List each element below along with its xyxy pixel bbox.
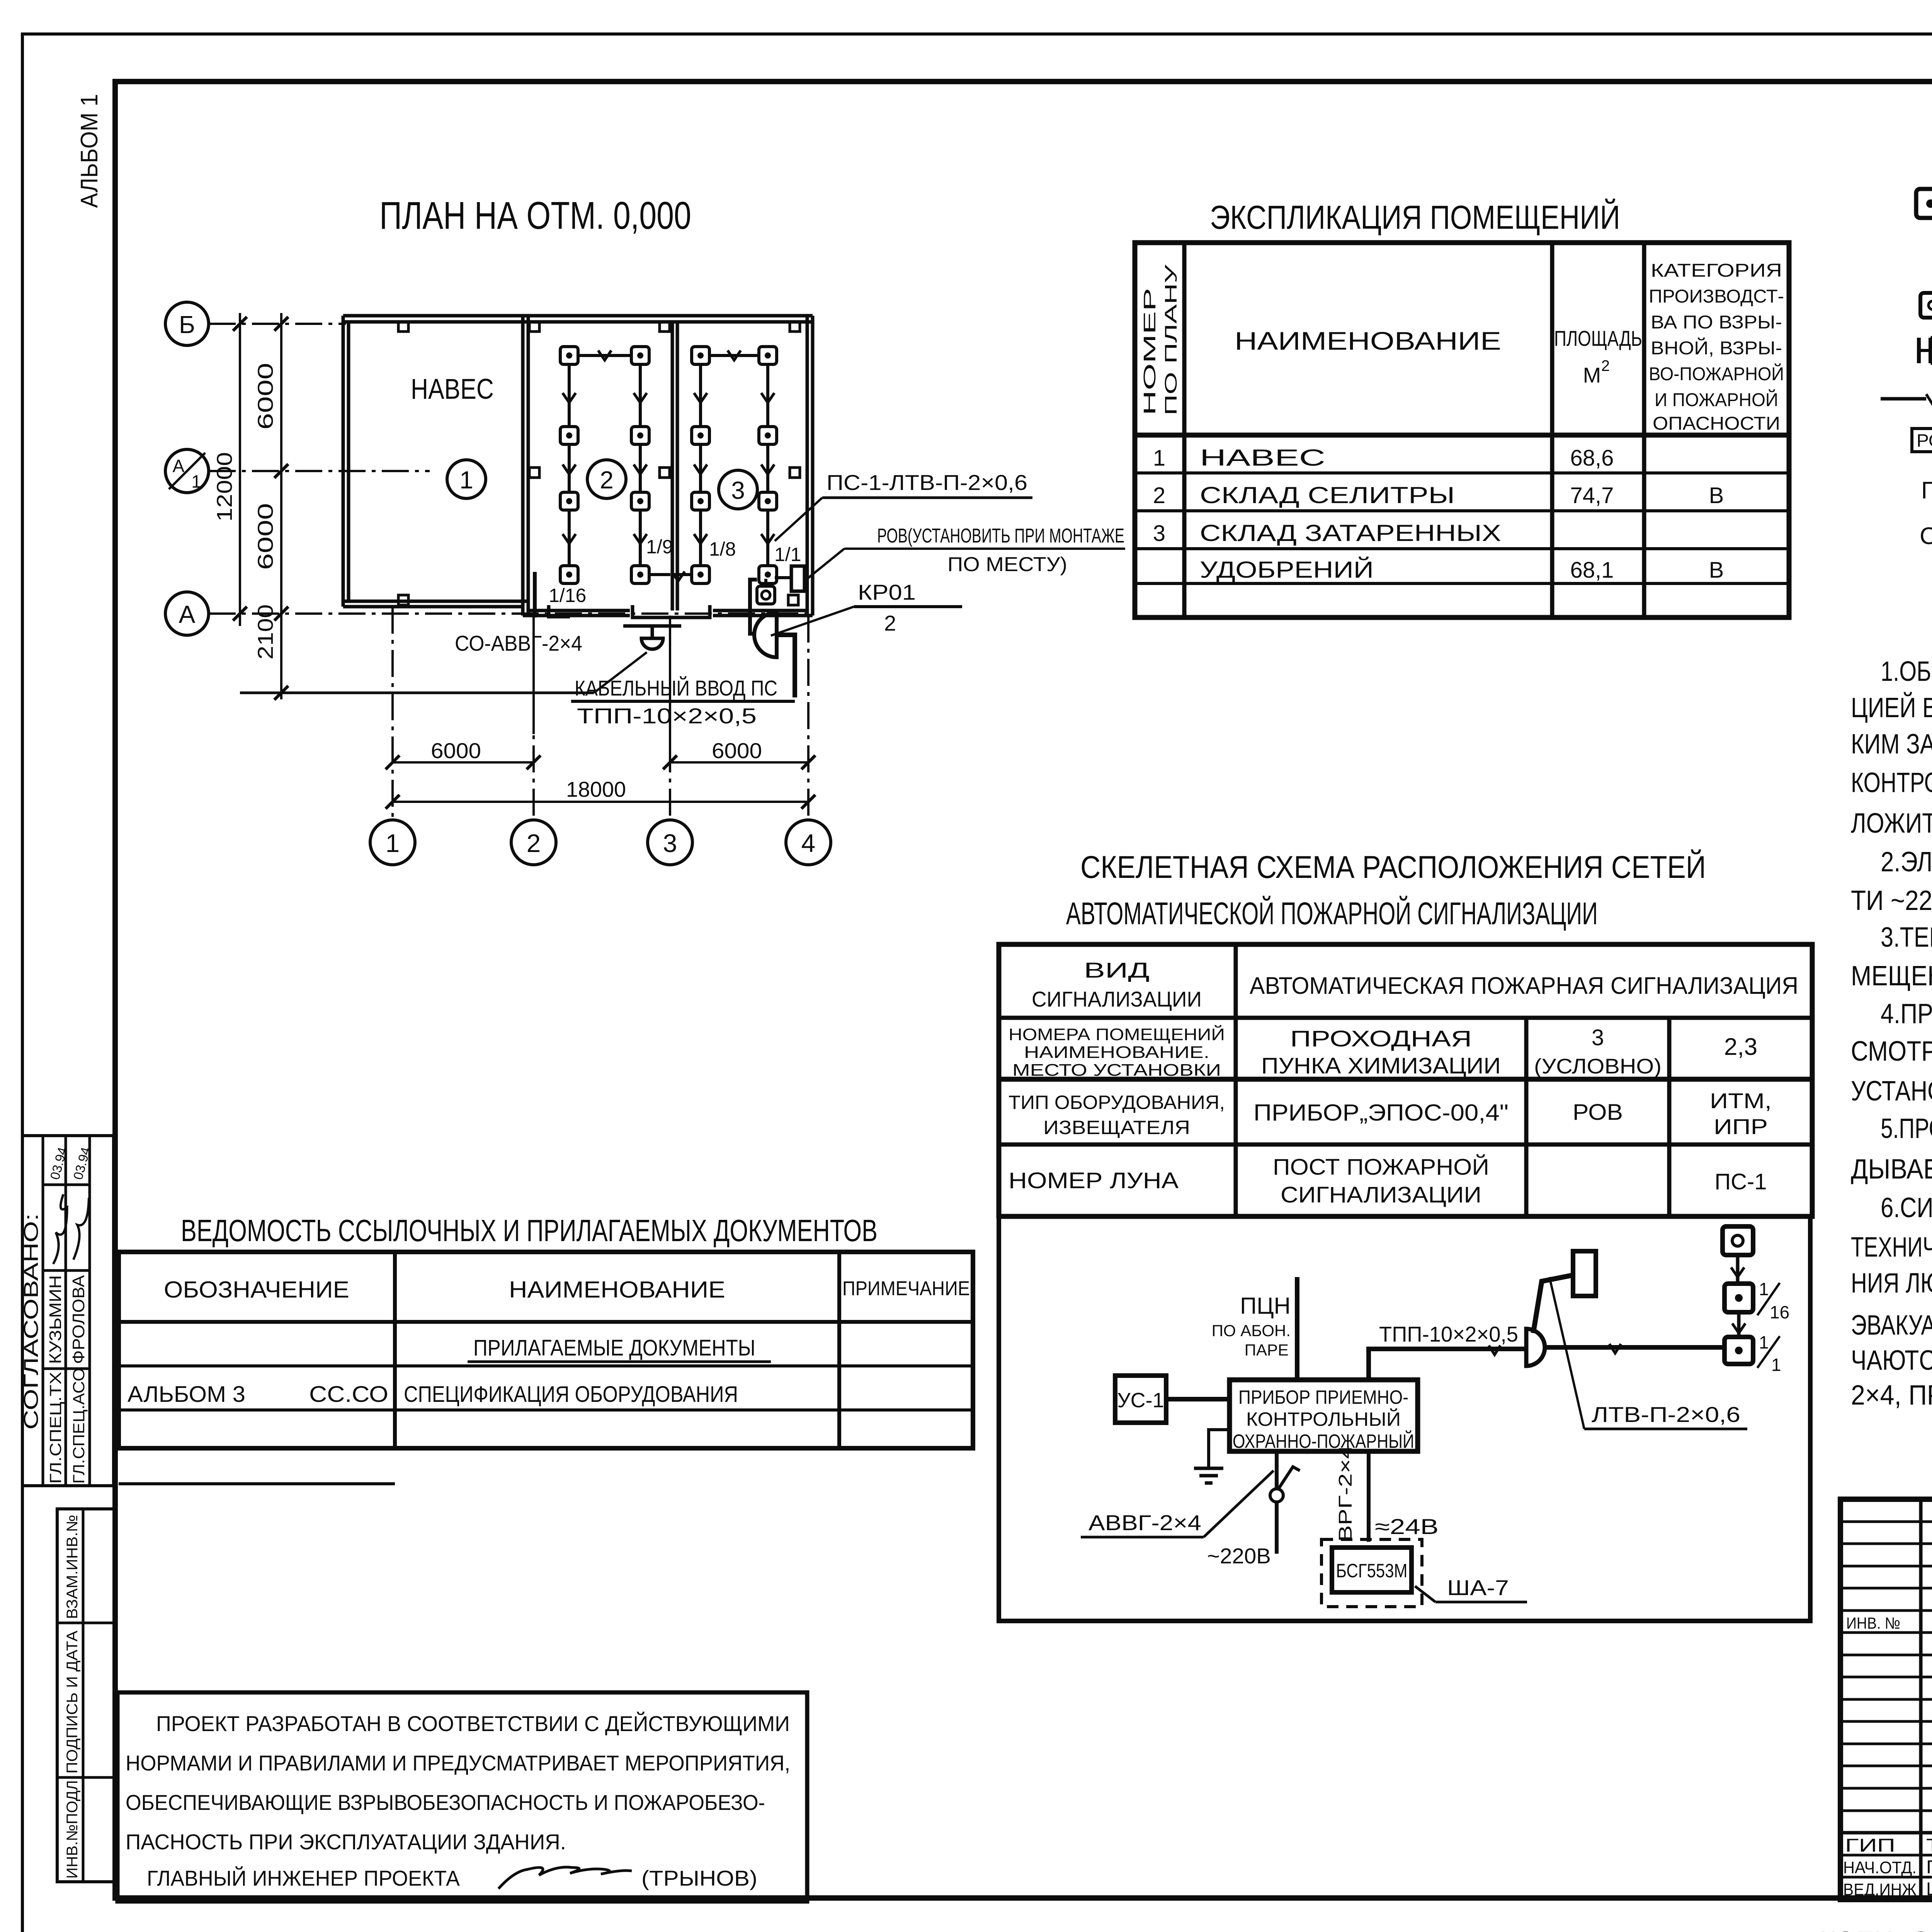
svg-text:ВЕДОМОСТЬ ССЫЛОЧНЫХ И ПРИЛАГАЕ: ВЕДОМОСТЬ ССЫЛОЧНЫХ И ПРИЛАГАЕМЫХ ДОКУМЕ… [181,1213,878,1248]
legend icon: automatic fire detector 1/1 [1916,180,1932,223]
dimension 18000 axes 1-4 [386,777,815,809]
svg-text:ЛТВ-П-2×0,6: ЛТВ-П-2×0,6 [1592,1402,1740,1427]
svg-text:СО-АВВГ-2×4: СО-АВВГ-2×4 [455,631,582,655]
label Кабельный ввод ПС / ТПП-10×2×0,5 [571,676,795,728]
svg-text:НОМЕР ЛУНА: НОМЕР ЛУНА [1009,1168,1179,1193]
door threshold room 1 [549,605,570,617]
svg-text:ПО ПЛАНУ: ПО ПЛАНУ [1162,264,1180,415]
stamp label ПОДПИСЬ И ДАТА [64,1631,81,1774]
svg-text:2100: 2100 [253,604,277,660]
bell box on schematic [1573,1251,1596,1296]
header ПЛОЩАДЬ м2 [1554,326,1642,387]
svg-text:12000: 12000 [212,452,236,522]
header НАИМЕНОВАНИЕ [1235,327,1501,355]
header Наименование [509,1277,725,1303]
skeleton scheme title [1066,849,1706,931]
stamp label ВЗАМ.ИНВ.№ [64,1515,81,1619]
svg-text:ПОТАПОВ: ПОТАПОВ [1926,1857,1932,1878]
svg-text:ПРИЛАГАЕМЫЕ ДОКУМЕНТЫ: ПРИЛАГАЕМЫЕ ДОКУМЕНТЫ [473,1335,755,1361]
svg-text:68,1: 68,1 [1570,558,1614,583]
svg-text:ША-7: ША-7 [1447,1575,1509,1600]
documents list table grid [119,1252,973,1484]
svg-text:ДЫВАЕМЫМ ПО СТЕНЕ И ПОТОЛКУ ОТ: ДЫВАЕМЫМ ПО СТЕНЕ И ПОТОЛКУ ОТКРЫТО. [1851,1154,1932,1185]
svg-text:ЛОЖИТЬ В ПРОХОДНОЙ ПУНКТА ХИМИ: ЛОЖИТЬ В ПРОХОДНОЙ ПУНКТА ХИМИЗАЦИИ. [1851,807,1932,839]
svg-text:НАВЕС: НАВЕС [411,373,494,405]
svg-text:2: 2 [1601,357,1610,374]
bottom margin text Копировал [1820,1927,1932,1932]
svg-text:А: А [179,600,196,628]
explication table title [1210,199,1620,236]
axis extension verticals 1-4 [393,607,808,819]
svg-text:АЛЬБОМ 1: АЛЬБОМ 1 [76,94,103,208]
detector 1/16 on schematic [1725,1279,1789,1322]
wire ВРГ-2×4 to battery [1335,1445,1369,1542]
svg-text:6.СИСТЕМА ОПОВЕЩЕНИЯ О ПОЖАРЕ-: 6.СИСТЕМА ОПОВЕЩЕНИЯ О ПОЖАРЕ-СОСТАВНАЯ … [1881,1192,1932,1223]
node ПЦН (city line) [1212,1277,1297,1380]
svg-text:А: А [173,456,185,476]
svg-text:РОВ: РОВ [1917,430,1932,451]
svg-text:НОМЕРА ПОМЕЩЕНИЙ: НОМЕРА ПОМЕЩЕНИЙ [1009,1024,1225,1044]
beam number label 1/1 [774,544,801,565]
plan title: План на отм. 0,000 [379,194,691,237]
bracket wire to bell КР01 [750,580,757,634]
label ТПП-10×2×0,5 [1379,1322,1518,1346]
svg-text:АВТОМАТИЧЕСКАЯ ПОЖАРНАЯ СИГНАЛ: АВТОМАТИЧЕСКАЯ ПОЖАРНАЯ СИГНАЛИЗАЦИЯ [1250,973,1798,999]
svg-text:ВРГ-2×4: ВРГ-2×4 [1335,1445,1356,1542]
approval stamp box (СОГЛАСОВАНО) [22,1136,114,1486]
room label Навес [411,373,494,405]
svg-text:ПС-1: ПС-1 [1714,1169,1767,1194]
svg-text:В: В [1709,558,1724,583]
svg-text:3.ТЕПЛОВЫЕ ПОЖАРНЫЕ ИЗВЕЩАТЕЛИ: 3.ТЕПЛОВЫЕ ПОЖАРНЫЕ ИЗВЕЩАТЕЛИ ИТМ УСТАН… [1881,922,1932,953]
vertical dimension line 6000/6000/2100 [253,313,288,700]
svg-text:4.ПРИ СРАБАТЫВАНИИ ЛЮБОГО ИЗВЕ: 4.ПРИ СРАБАТЫВАНИИ ЛЮБОГО ИЗВЕЩАТЕЛЯ ПРИ… [1881,998,1932,1029]
svg-text:2: 2 [884,611,896,635]
svg-text:ПРИБОР ПРИЕМНО-: ПРИБОР ПРИЕМНО- [1238,1386,1408,1408]
svg-text:СО: СО [1920,523,1932,549]
svg-text:ОПАСНОСТИ: ОПАСНОСТИ [1653,413,1780,434]
svg-text:ВИД: ВИД [1084,958,1150,982]
svg-text:ПРОХОДНАЯ: ПРОХОДНАЯ [1290,1026,1472,1051]
svg-text:М: М [1583,363,1601,387]
bell room 2 (звонок) [623,626,681,649]
svg-text:ВНОЙ, ВЗРЫ-: ВНОЙ, ВЗРЫ- [1651,337,1782,359]
label ПС-1-ЛТВ-П-2×0,6 [775,470,1032,541]
svg-text:1/8: 1/8 [709,538,736,560]
svg-text:ВЕД.ИНЖ: ВЕД.ИНЖ [1843,1880,1917,1899]
svg-text:АВТОМАТИЧЕСКОЙ ПОЖАРНОЙ СИГНАЛ: АВТОМАТИЧЕСКОЙ ПОЖАРНОЙ СИГНАЛИЗАЦИИ [1066,896,1598,931]
svg-text:6000: 6000 [253,503,277,570]
svg-text:СС.СО: СС.СО [309,1382,388,1407]
axis circle 3 [648,820,692,865]
dimension 6000 axes 3-4 [663,738,815,769]
svg-text:СМОТРЕНО ОТКЛЮЧЕНИЕ ЦЕПЕЙ ПИТА: СМОТРЕНО ОТКЛЮЧЕНИЕ ЦЕПЕЙ ПИТАНИЯ ВЕНТСИ… [1851,1035,1932,1067]
wire ИПР to detector 1/16 [1731,1255,1744,1284]
svg-text:ГИП: ГИП [1845,1835,1895,1856]
label АВВГ-2×4 [1081,1471,1274,1537]
svg-text:ВО-ПОЖАРНОЙ: ВО-ПОЖАРНОЙ [1649,363,1784,384]
svg-text:ПРИБОР„ЭПОС-00,4": ПРИБОР„ЭПОС-00,4" [1253,1100,1509,1126]
wire device to junction box [1369,1345,1526,1380]
svg-text:ПОДПИСЬ И ДАТА: ПОДПИСЬ И ДАТА [64,1631,81,1774]
svg-text:4: 4 [801,829,816,857]
svg-text:1: 1 [1771,1355,1781,1375]
legend icon: manual call point [1920,293,1932,318]
label ША-7 [1415,1575,1527,1602]
svg-text:3: 3 [1592,1025,1604,1050]
svg-text:2: 2 [1153,483,1165,508]
control device ППКОП [1230,1380,1418,1452]
svg-text:КИМ ЗАДАНИЕМ. СИГНАЛЫ О ПОЖАРЕ: КИМ ЗАДАНИЕМ. СИГНАЛЫ О ПОЖАРЕ ПОДАЮТСЯ … [1851,729,1932,760]
wire УС-1 to device [1166,1397,1230,1401]
cable riser stub near 1/16 [533,572,537,617]
axis circle А/1 [165,449,209,493]
svg-text:СПЕЦИФИКАЦИЯ ОБОРУДОВАНИЯ: СПЕЦИФИКАЦИЯ ОБОРУДОВАНИЯ [404,1382,738,1407]
svg-text:ТЕХНИЧЕСКИХ СРЕДСТВ ПРОТИВОПОЖ: ТЕХНИЧЕСКИХ СРЕДСТВ ПРОТИВОПОЖАРНОЙ ЗАЩИ… [1851,1231,1932,1263]
wire stub chain 1/9 [649,571,685,581]
svg-text:КОПИРОВАЛ ЗАВЬЯЛОВА: КОПИРОВАЛ ЗАВЬЯЛОВА [1820,1927,1932,1932]
svg-text:68,6: 68,6 [1570,446,1614,471]
stamp row ГЛ.СПЕЦ.ТХ КУЗЬМИН 03.94 [44,1146,75,1484]
header Обозначение [164,1277,349,1303]
svg-text:НАИМЕНОВАНИЕ: НАИМЕНОВАНИЕ [1235,327,1501,355]
svg-text:РОВ(УСТАНОВИТЬ ПРИ МОНТАЖЕ: РОВ(УСТАНОВИТЬ ПРИ МОНТАЖЕ [877,525,1124,547]
svg-text:МЕСТО УСТАНОВКИ: МЕСТО УСТАНОВКИ [1012,1061,1221,1080]
svg-text:КОНТРОЛЬНЫЙ ОХРАННО-ПОЖАРНЫЙ„Э: КОНТРОЛЬНЫЙ ОХРАННО-ПОЖАРНЫЙ„ЭПОС-004". … [1851,767,1932,798]
svg-text:КР01: КР01 [858,580,916,604]
skeleton table row 3 [1009,1088,1772,1139]
svg-text:ПС-1-ЛТВ-П-2×0,6: ПС-1-ЛТВ-П-2×0,6 [827,470,1027,495]
room number 3 [719,470,757,509]
svg-text:ТРЫНОВ: ТРЫНОВ [1926,1835,1932,1856]
axis circle 2 [511,820,556,865]
title block left grid rows [1840,1522,1932,1877]
svg-text:НАИМЕНОВАНИЕ: НАИМЕНОВАНИЕ [509,1277,725,1303]
svg-text:1: 1 [1759,1279,1769,1299]
row 4 удобрений 68,1 В [1200,557,1724,583]
svg-text:НАВЕС: НАВЕС [1200,445,1325,471]
label ЛТВ-П-2×0,6 [1549,1277,1747,1429]
stamp label ИНВ.№ПОДЛ. [64,1780,81,1879]
svg-text:16: 16 [1770,1302,1789,1322]
label СО-АВВГ-2×4 with leader [240,631,647,693]
door threshold room 2/3 [633,605,710,617]
svg-text:6000: 6000 [431,738,481,763]
svg-text:ЦЫГАНОВА: ЦЫГАНОВА [1926,1879,1932,1900]
svg-text:ГЛ.СПЕЦ.АСО: ГЛ.СПЕЦ.АСО [70,1368,88,1484]
junction box КР (semicircle) [1526,1329,1545,1366]
columns [398,321,800,605]
label КР01/2 [771,580,962,636]
svg-text:1/1: 1/1 [774,544,801,565]
detector chain beam 1 (1/1 group) [759,347,777,583]
battery box ША-7 dashed [1321,1539,1422,1607]
beam number label 1/16 [549,585,586,606]
svg-text:1.ОБОРУДОВАНИЕ ОБЪЕКТА АВТОМАТ: 1.ОБОРУДОВАНИЕ ОБЪЕКТА АВТОМАТИЧЕСКОЙ ПО… [1881,655,1932,687]
svg-text:3: 3 [1153,521,1165,546]
svg-text:РОВ: РОВ [1573,1100,1623,1125]
detector chain beam 1 (1/16 group) [560,347,578,583]
svg-text:1/9: 1/9 [646,536,673,558]
svg-text:ТПП-10×2×0,5: ТПП-10×2×0,5 [577,704,757,728]
axis line А [209,612,813,615]
svg-text:ОБЕСПЕЧИВАЮЩИЕ ВЗРЫВОБЕЗОПАСНО: ОБЕСПЕЧИВАЮЩИЕ ВЗРЫВОБЕЗОПАСНОСТЬ И ПОЖА… [126,1790,765,1815]
svg-text:КАТЕГОРИЯ: КАТЕГОРИЯ [1651,260,1782,281]
detector 1/1 on schematic [1725,1332,1781,1375]
svg-text:ГЛАВНЫЙ ИНЖЕНЕР ПРОЕКТА: ГЛАВНЫЙ ИНЖЕНЕР ПРОЕКТА [147,1866,460,1890]
device УС-1 [1115,1376,1166,1423]
svg-text:2,3: 2,3 [1724,1034,1757,1060]
row Прилагаемые документы [468,1335,771,1362]
svg-text:КОНТРОЛЬНЫЙ: КОНТРОЛЬНЫЙ [1246,1408,1401,1430]
svg-text:1: 1 [386,829,400,857]
vertical dimension line 12000 [212,313,247,626]
svg-text:ОХРАННО-ПОЖАРНЫЙ: ОХРАННО-ПОЖАРНЫЙ [1233,1430,1414,1452]
wire junction to detectors [1545,1344,1725,1353]
project statement text [126,1711,790,1890]
svg-text:ПРОЕКТ РАЗРАБОТАН В СООТВЕТСТВ: ПРОЕКТ РАЗРАБОТАН В СООТВЕТСТВИИ С ДЕЙСТ… [156,1711,790,1736]
skeleton table row 4 [1009,1155,1767,1207]
svg-text:УДОБРЕНИЙ: УДОБРЕНИЙ [1200,557,1374,583]
room number 1 [447,460,486,498]
svg-text:6000: 6000 [253,363,277,430]
manual call point on schematic [1723,1226,1753,1255]
legend icon: signal line with v [1881,394,1932,403]
row 1 Навес 68,6 [1153,445,1614,471]
svg-text:ПЛАН НА ОТМ. 0,000: ПЛАН НА ОТМ. 0,000 [379,194,691,237]
svg-text:ЧАЮТСЯ ДЕЖУРНЫМ ПЕРСОНАЛОМ. СЕ: ЧАЮТСЯ ДЕЖУРНЫМ ПЕРСОНАЛОМ. СЕТЬ ВЫПОЛНИ… [1851,1345,1932,1376]
axis circle 1 [370,820,415,865]
stamp row ГЛ.СПЕЦ.АСО ФРОЛОВА 03.94 [69,1146,94,1484]
wire detector 1/16 to 1/1 [1732,1312,1745,1337]
svg-text:ПЛОЩАДЬ: ПЛОЩАДЬ [1554,326,1642,350]
title block outer [1840,1499,1932,1900]
svg-text:(УСЛОВНО): (УСЛОВНО) [1534,1054,1662,1078]
svg-text:БСГ553М: БСГ553М [1336,1560,1408,1582]
svg-text:ИЗВЕЩАТЕЛЯ: ИЗВЕЩАТЕЛЯ [1043,1117,1190,1138]
svg-text:1/16: 1/16 [549,585,586,606]
svg-text:НОМЕР: НОМЕР [1140,288,1159,415]
legend icon: РОВ relay box [1912,429,1932,452]
header Примечание [842,1277,970,1300]
svg-text:СОГЛАСОВАНО:: СОГЛАСОВАНО: [20,1213,43,1430]
label ~220В [1207,1544,1271,1568]
svg-text:ВА ПО ВЗРЫ-: ВА ПО ВЗРЫ- [1651,312,1782,333]
wire 220V with switch [1270,1451,1300,1554]
header КАТЕГОРИЯ ... [1649,260,1784,434]
stamp text СОГЛАСОВАНО [20,1213,43,1430]
svg-text:УСТАНОВИТЬ В ЯЩИКЕ ПРИ МОНТАЖЕ: УСТАНОВИТЬ В ЯЩИКЕ ПРИ МОНТАЖЕ ПО МЕСТУ … [1851,1076,1932,1107]
svg-text:ПЦН: ПЦН [1240,1293,1291,1319]
header НОМЕР ПО ПЛАНУ (rotated) [1140,264,1180,415]
svg-text:ПУНКА ХИМИЗАЦИИ: ПУНКА ХИМИЗАЦИИ [1261,1053,1501,1078]
detector chain beam 1 (1/8 group) [692,347,709,583]
svg-text:ПО АБОН.: ПО АБОН. [1212,1321,1291,1340]
title block signature rows [1843,1835,1932,1900]
skeleton scheme table grid [999,944,1812,1216]
label Инв. № [1846,1614,1900,1632]
svg-text:ТПП-10×2×0,5: ТПП-10×2×0,5 [1379,1322,1518,1346]
svg-text:18000: 18000 [566,777,626,801]
wire junction to bell РОВ box [1533,1275,1573,1333]
wire stub chain 1/8 [673,573,692,576]
svg-text:КУЗЬМИН: КУЗЬМИН [46,1275,65,1364]
row Альбом 3 СС.СО Спецификация оборудования [128,1382,738,1407]
svg-text:СИГНАЛИЗАЦИИ: СИГНАЛИЗАЦИИ [1032,987,1202,1011]
svg-text:И ПОЖАРНОЙ: И ПОЖАРНОЙ [1655,389,1778,410]
row 2 Склад селитры 74,7 В [1153,482,1724,508]
ground [1194,1430,1230,1483]
axis circle А [165,592,209,635]
svg-text:СКЛАД ЗАТАРЕННЫХ: СКЛАД ЗАТАРЕННЫХ [1200,520,1501,546]
svg-text:ОБОЗНАЧЕНИЕ: ОБОЗНАЧЕНИЕ [164,1277,349,1303]
svg-text:ТИ ~220В И ОТ БАТАРЕИ ≈24В. ПР: ТИ ~220В И ОТ БАТАРЕИ ≈24В. ПРИБОР ЗАЗЕМ… [1851,885,1932,916]
svg-text:ЭВАКУАЦИИ ЛЮДЕЙ. ПРИ ПОСТУПЛЕН: ЭВАКУАЦИИ ЛЮДЕЙ. ПРИ ПОСТУПЛЕНИИ СИГНАЛА… [1851,1309,1932,1341]
svg-text:ТИП ОБОРУДОВАНИЯ,: ТИП ОБОРУДОВАНИЯ, [1009,1092,1225,1113]
svg-text:~220В: ~220В [1207,1544,1271,1568]
beam number label 1/8 [709,538,736,560]
svg-text:ИТМ,: ИТМ, [1710,1088,1772,1113]
svg-text:≈24В: ≈24В [1375,1514,1439,1539]
manual call point ИПР room 3 [757,586,775,604]
room number 2 [587,460,626,498]
explication table grid [1135,243,1789,617]
legend icon: ПС [1921,477,1932,504]
svg-text:НАИМЕНОВАНИЕ.: НАИМЕНОВАНИЕ. [1024,1043,1209,1062]
svg-text:ФРОЛОВА: ФРОЛОВА [69,1275,88,1364]
svg-text:ГЛ.СПЕЦ.ТХ: ГЛ.СПЕЦ.ТХ [46,1372,65,1484]
svg-text:1: 1 [1759,1332,1769,1352]
label РОВ (установить при монтаже по месту) [805,525,1125,580]
svg-text:ИПР: ИПР [1714,1114,1768,1139]
svg-text:В: В [1709,483,1724,508]
skeleton table row 2 [1009,1024,1757,1080]
svg-text:НОРМАМИ И ПРАВИЛАМИ И ПРЕДУСМА: НОРМАМИ И ПРАВИЛАМИ И ПРЕДУСМАТРИВАЕТ МЕ… [126,1751,790,1775]
svg-text:(ТРЫНОВ): (ТРЫНОВ) [641,1866,757,1890]
axis line А/1 [209,470,430,472]
svg-text:ПО МЕСТУ): ПО МЕСТУ) [947,553,1067,576]
svg-text:ВЗАМ.ИНВ.№: ВЗАМ.ИНВ.№ [64,1515,81,1619]
row 3 Склад затаренных [1153,520,1501,546]
svg-text:КАБЕЛЬНЫЙ ВВОД ПС: КАБЕЛЬНЫЙ ВВОД ПС [575,676,777,700]
dimension 6000 axes 1-2 [386,738,541,769]
svg-text:СКЛАД СЕЛИТРЫ: СКЛАД СЕЛИТРЫ [1200,482,1455,508]
svg-text:6000: 6000 [712,738,762,763]
svg-text:5.ПРОВОДКУ К ИЗВЕЩАТЕЛЯМ ВЫПОЛ: 5.ПРОВОДКУ К ИЗВЕЩАТЕЛЯМ ВЫПОЛНИТЬ КАБЕЛ… [1881,1113,1932,1144]
svg-text:Б: Б [179,311,195,338]
album label: Альбом 1 [76,94,103,208]
chief engineer signature [498,1867,632,1889]
documents list title [181,1213,878,1248]
general notes paragraphs [1851,655,1932,1411]
label ≈24В [1375,1514,1439,1539]
wire detector to ИПР [764,579,767,586]
svg-text:ПАСНОСТЬ ПРИ ЭКСПЛУАТАЦИИ ЗДАН: ПАСНОСТЬ ПРИ ЭКСПЛУАТАЦИИ ЗДАНИЯ. [126,1830,566,1854]
svg-text:1: 1 [459,466,473,494]
svg-text:НАЧ.ОТД.: НАЧ.ОТД. [1843,1858,1917,1877]
svg-text:3: 3 [731,476,745,504]
wire link room2 top [578,350,631,360]
svg-text:1: 1 [191,471,201,492]
svg-text:ПРИМЕЧАНИЕ: ПРИМЕЧАНИЕ [842,1277,970,1300]
svg-text:2.ЭЛЕКТРОПИТАНИЕ ПРИБОРА ПРОИЗ: 2.ЭЛЕКТРОПИТАНИЕ ПРИБОРА ПРОИЗВЕСТИ ПО I… [1881,847,1932,878]
svg-text:ЭКСПЛИКАЦИЯ ПОМЕЩЕНИЙ: ЭКСПЛИКАЦИЯ ПОМЕЩЕНИЙ [1210,199,1620,236]
schematic outer box [999,1216,1810,1621]
relay РОВ room 3 [791,566,804,591]
svg-text:1: 1 [1153,446,1165,471]
svg-text:3: 3 [663,829,677,857]
wire link room3 top [709,350,759,360]
svg-text:СКЕЛЕТНАЯ СХЕМА РАСПОЛОЖЕНИЯ С: СКЕЛЕТНАЯ СХЕМА РАСПОЛОЖЕНИЯ СЕТЕЙ [1080,849,1706,885]
svg-text:ПС: ПС [1921,477,1932,504]
svg-text:2: 2 [527,829,541,857]
axis circle 4 [786,820,831,865]
svg-text:ИНВ. №: ИНВ. № [1846,1614,1900,1632]
svg-text:АЛЬБОМ 3: АЛЬБОМ 3 [128,1382,245,1407]
detector chain beam 1 (1/9 group) [631,347,649,583]
skeleton table row 1 [1032,958,1798,1011]
cable entry wire [777,635,795,697]
beam number label 1/9 [646,536,673,558]
bell КР01 room 3 [754,612,777,657]
building walls [343,316,813,616]
svg-text:ПРОИЗВОДСТ-: ПРОИЗВОДСТ- [1649,286,1784,307]
svg-text:ИНВ.№ПОДЛ: ИНВ.№ПОДЛ [64,1780,81,1879]
axis circle Б [165,302,209,345]
svg-text:ПАРЕ: ПАРЕ [1245,1341,1289,1359]
legend icon: СО [1920,523,1932,549]
legend icon: electric bell [1919,338,1932,363]
svg-text:ЦИЕЙ ВЫПОЛНЕНО В СООТВЕТСТВИИ: ЦИЕЙ ВЫПОЛНЕНО В СООТВЕТСТВИИ С ВСН-25-0… [1851,692,1932,723]
svg-text:НИЯ ЛЮДЕЙ О ПОЖАРЕ УСТАНОВИТЬ: НИЯ ЛЮДЕЙ О ПОЖАРЕ УСТАНОВИТЬ ЗВОНКИ МЗ-… [1851,1267,1932,1299]
svg-text:ПОСТ ПОЖАРНОЙ: ПОСТ ПОЖАРНОЙ [1273,1155,1489,1180]
wire to РОВ [775,576,791,579]
svg-text:АВВГ-2×4: АВВГ-2×4 [1088,1510,1201,1535]
svg-text:МЕЩЕНИЯ СВЕТИЛЬНИКОВ, В КОНЦЕ: МЕЩЕНИЯ СВЕТИЛЬНИКОВ, В КОНЦЕ ЛУЧА-РУЧНО… [1851,960,1932,992]
svg-text:2×4, ПРОКЛАДЫВАЕМЫМ ОТДЕЛЬНО.: 2×4, ПРОКЛАДЫВАЕМЫМ ОТДЕЛЬНО. [1851,1380,1932,1411]
svg-text:УС-1: УС-1 [1117,1389,1164,1412]
inventory stamp box (ВЗАМ.ИНВ / ПОДПИСЬ / ИНВ) [57,1509,115,1882]
svg-text:2: 2 [600,466,614,494]
axis line Б [209,323,346,325]
svg-text:СИГНАЛИЗАЦИИ: СИГНАЛИЗАЦИИ [1281,1182,1481,1207]
svg-text:74,7: 74,7 [1570,483,1614,508]
project statement box [117,1692,807,1901]
